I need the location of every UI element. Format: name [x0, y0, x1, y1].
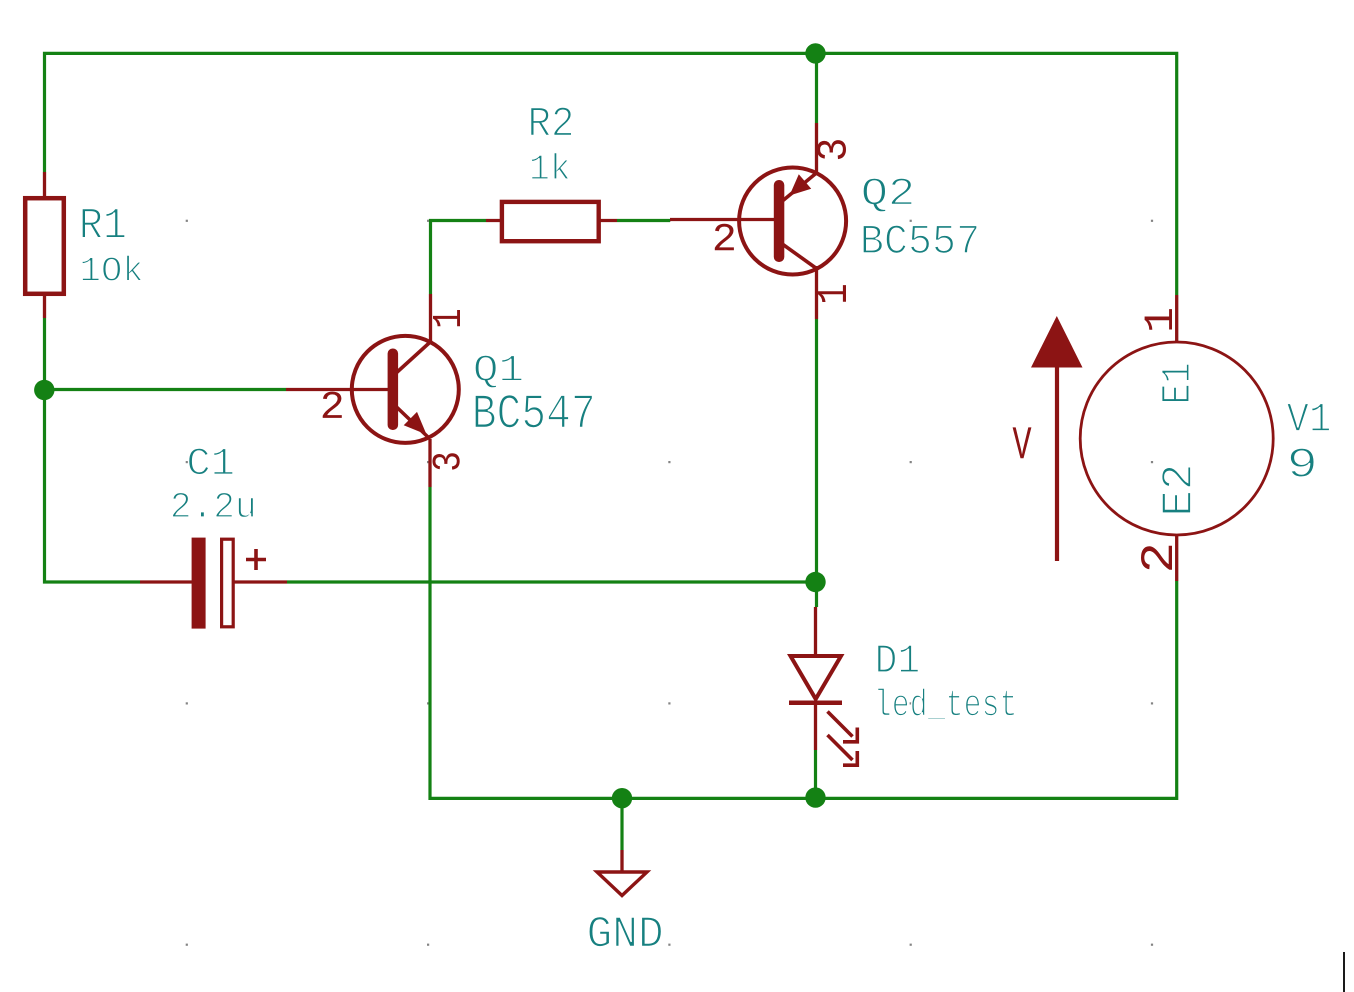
pin R1 top — [43, 172, 46, 197]
pin Q2 emitter top — [815, 123, 818, 175]
junction base node — [34, 380, 54, 400]
wire top rail — [45, 53, 1177, 295]
label BC547 — [475, 395, 593, 428]
pin R2 left — [486, 219, 503, 222]
ground symbol — [597, 872, 647, 896]
label 1k — [531, 153, 569, 180]
resistor R2 — [502, 202, 599, 241]
wire bottom rail — [430, 487, 1177, 798]
voltage source V1 — [1031, 316, 1273, 561]
label Q2 — [863, 178, 912, 212]
pin R1 bottom — [43, 295, 46, 318]
LED D1 — [789, 656, 857, 765]
pin V1 bottom — [1175, 535, 1178, 581]
label R1 — [82, 209, 125, 238]
wire base row node — [45, 388, 287, 391]
label V1 — [1287, 403, 1330, 430]
label 10k — [82, 255, 142, 281]
label 9 — [1290, 448, 1314, 477]
junction C1/D1 node — [805, 572, 825, 592]
label E1 — [1162, 364, 1189, 402]
junction D1 bottom — [805, 787, 825, 807]
pin number V1-2 — [1141, 546, 1172, 570]
label BC557 — [863, 225, 977, 253]
pin V1 top — [1175, 295, 1178, 342]
pin Q2 collector bottom — [815, 266, 818, 319]
pin Q1 collector — [429, 294, 432, 341]
pin Q1 base — [286, 388, 391, 391]
wire left vertical below R1 to C1 row — [45, 318, 141, 582]
wire Q2 collector down to D1 — [815, 319, 818, 607]
wire D1 to bottom rail — [814, 750, 817, 799]
label C1 — [189, 448, 233, 475]
label GND — [589, 917, 662, 947]
capacitor C1 — [192, 538, 266, 629]
resistor R1 — [25, 198, 64, 294]
pin C1 right — [234, 580, 287, 583]
wire GND stub — [620, 798, 623, 850]
label V of V1 arrow — [1013, 427, 1032, 458]
pin Q2 base — [670, 218, 777, 221]
pin number Q2-1 — [818, 285, 847, 302]
label D1 — [878, 645, 919, 672]
label led_test — [878, 688, 1015, 720]
pin number Q1-2 — [323, 392, 342, 418]
pin D1 cathode — [814, 701, 817, 750]
wire Q1 collector up to R2 row — [431, 221, 487, 295]
pin number V1-1 — [1145, 309, 1172, 330]
junction top rail — [805, 43, 825, 63]
label R2 — [531, 107, 572, 135]
pin D1 anode — [814, 607, 817, 658]
label Q1 — [475, 355, 522, 388]
wire R2 right to Q2 base — [617, 219, 670, 222]
wire Q2 emitter to top rail — [815, 53, 818, 123]
junction GND — [612, 788, 632, 808]
wire C1 right to D1 node — [287, 580, 816, 583]
pin Q1 emitter — [428, 439, 431, 487]
pin number Q2-3 — [817, 140, 846, 159]
label E2 — [1162, 467, 1191, 513]
pin R2 right — [598, 219, 617, 222]
label 2.2u — [172, 492, 253, 517]
transistor Q1 — [352, 336, 459, 443]
pin number Q2-2 — [715, 224, 734, 251]
pin C1 left — [140, 580, 193, 583]
pin number Q1-3 — [433, 453, 460, 469]
pin GND — [620, 850, 623, 872]
pin number Q1-1 — [433, 310, 460, 326]
transistor Q2 — [739, 168, 846, 275]
